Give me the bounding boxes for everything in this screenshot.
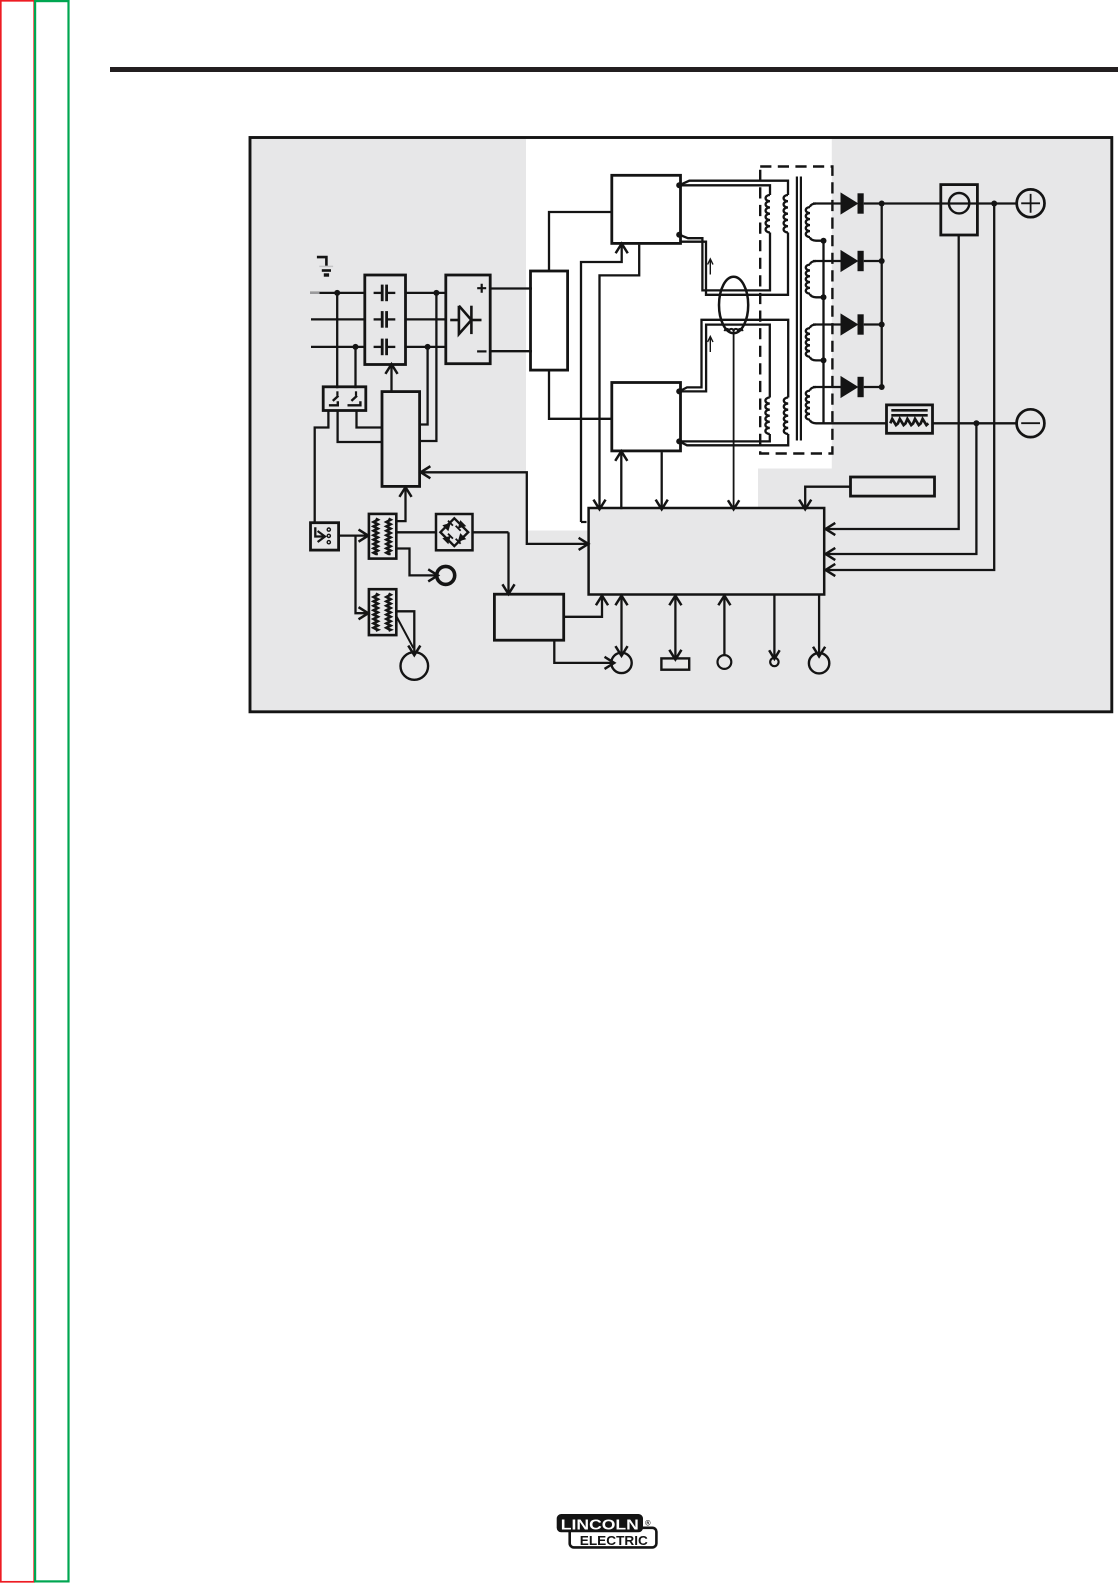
svg-text:®: ® xyxy=(645,1519,651,1528)
svg-text:ELECTRIC: ELECTRIC xyxy=(580,1534,648,1548)
svg-text:LINCOLN: LINCOLN xyxy=(561,1516,639,1533)
